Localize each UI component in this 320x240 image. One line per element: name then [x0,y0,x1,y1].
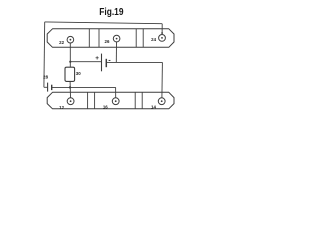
battery cell B plus plate [101,54,103,72]
wire right vertical drop to terminal 14 [161,62,164,97]
wire top horizontal from left riser to terminal 24 [45,22,163,24]
svg-text:+: + [95,55,99,62]
wire riser to terminal 24 [161,24,163,35]
wire stub into capacitor 28 [44,86,47,88]
terminal 24 [159,35,166,42]
terminal 12 [67,98,74,105]
bottom bar divider wall 1a [87,92,89,109]
capacitor C28 right plate [51,85,53,90]
svg-text:30: 30 [76,71,81,76]
capacitor C28 left plate [47,83,49,92]
wire from terminal 26 down to battery wire [115,42,117,63]
terminal 14 [158,98,165,105]
svg-text:12: 12 [59,105,64,110]
bottom bar divider wall 1b [94,92,96,109]
top bar divider wall 1b [98,29,100,48]
svg-text:28: 28 [43,75,48,80]
bottom busbar [47,92,174,109]
wire junction to battery plus plate [70,61,101,63]
svg-text:22: 22 [59,40,64,45]
resistor 30 [65,67,75,81]
terminal 16 [112,98,119,105]
bottom bar divider wall 2b [141,92,143,109]
top bar divider wall 2a [135,29,137,48]
wire drop to terminal 16 [115,87,117,97]
battery cell B minus plate [105,59,107,67]
wire resistor 30 to terminal 12 [69,81,71,97]
svg-text:Fig.19: Fig.19 [99,7,123,18]
terminal 22 [67,36,74,43]
bottom bar divider wall 2a [134,92,136,109]
node junction resistor wire with capacitor wire [69,86,71,88]
svg-text:16: 16 [103,104,108,109]
wire capacitor to node under resistor and on to terminal 16 [52,86,116,88]
wire from terminal 22 down to resistor 30 [69,43,71,67]
svg-text:14: 14 [151,104,156,109]
wire left vertical drop [43,22,46,87]
node junction at battery feed [69,61,71,63]
node wire end at terminal 24 [161,32,163,34]
terminal 26 [113,35,120,42]
svg-text:24: 24 [151,37,156,42]
label minus sign [109,59,111,61]
top bar divider wall 1a [88,29,90,48]
svg-text:26: 26 [105,39,110,44]
battery block 20 top busbar [47,29,174,48]
top bar divider wall 2b [142,29,144,48]
wire battery minus to right drop [107,61,162,63]
